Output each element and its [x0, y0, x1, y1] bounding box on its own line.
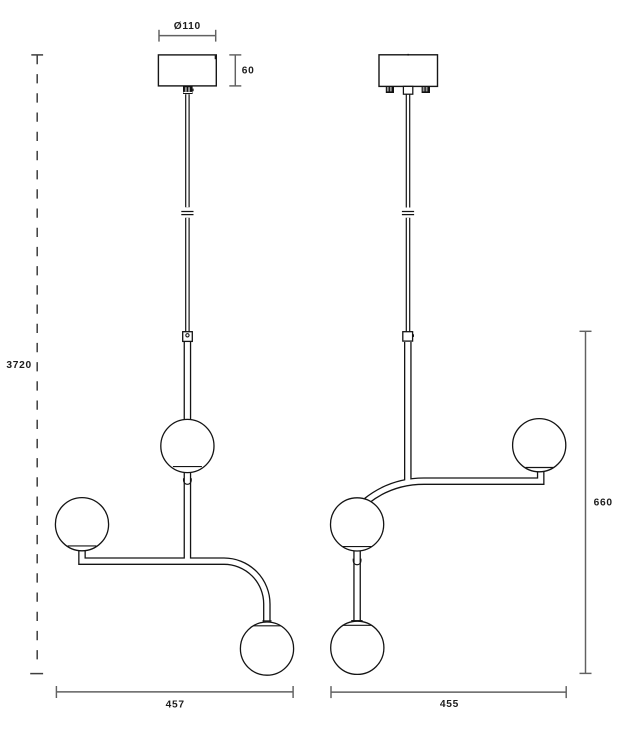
svg-text:455: 455 [440, 699, 459, 710]
left cord connector square [183, 332, 193, 342]
svg-text:457: 457 [166, 699, 185, 710]
left canopy connector [183, 86, 194, 94]
right canopy top tick [407, 54, 409, 56]
dimension 457 line [56, 686, 293, 698]
socket collar under centre globe [184, 478, 192, 484]
left canopy corner tick [215, 56, 217, 60]
dimension Ø110 line [159, 30, 216, 42]
right lamp mid globe [331, 498, 384, 551]
left lamp centre globe [161, 419, 214, 472]
break symbol left stem [181, 212, 193, 215]
right canopy foot left [386, 86, 394, 93]
socket collar under right mid globe [353, 559, 361, 565]
left canopy [158, 55, 216, 86]
svg-text:Ø110: Ø110 [174, 21, 201, 32]
right canopy foot right [422, 86, 430, 93]
right canopy [379, 55, 438, 87]
right canopy socket [403, 86, 412, 94]
left lamp left globe [55, 498, 108, 551]
right cord connector square [403, 332, 414, 341]
svg-text:60: 60 [242, 66, 255, 77]
right lamp bottom globe [331, 621, 384, 674]
svg-text:660: 660 [594, 497, 613, 508]
dimension 660 line [580, 331, 592, 673]
globe cap chords [68, 467, 554, 626]
break symbol right stem [402, 212, 414, 215]
right lamp top globe [513, 419, 566, 472]
left lamp tube strokes (black pass) [82, 94, 541, 625]
flare above right bottom globe [351, 620, 362, 622]
dimension 3720 dashed line [30, 55, 43, 674]
tube strokes (white pass) [82, 94, 541, 625]
svg-text:3720: 3720 [6, 360, 31, 371]
dimension 60 line [229, 55, 241, 86]
dimension 455 line [331, 686, 566, 698]
flare above left bottom globe [262, 620, 271, 622]
left lamp bottom globe [240, 622, 293, 675]
